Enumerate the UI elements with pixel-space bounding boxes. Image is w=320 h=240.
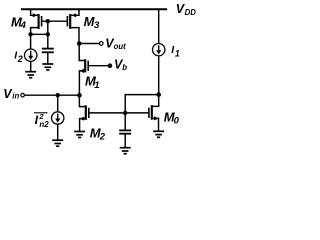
capacitor C1	[42, 34, 54, 64]
label I1	[171, 44, 180, 58]
ground M0	[153, 131, 164, 137]
transistor M4	[31, 9, 42, 34]
svg-text:n2: n2	[39, 120, 49, 129]
node Vout junction	[77, 41, 82, 46]
wire mirror node	[31, 33, 48, 35]
wire gate M2-M0	[89, 112, 149, 114]
label Vout	[105, 37, 126, 51]
svg-text:2: 2	[99, 132, 106, 143]
wire Vb	[88, 65, 110, 67]
node M4 drain	[28, 32, 32, 36]
node gate mirror	[123, 111, 127, 115]
svg-text:in: in	[12, 92, 19, 101]
wire M0 gate feedback	[125, 95, 159, 113]
terminal Vb bullet	[108, 63, 113, 68]
svg-text:0: 0	[174, 115, 180, 126]
label M4	[11, 15, 27, 32]
svg-text:b: b	[122, 63, 127, 72]
svg-text:I: I	[35, 113, 39, 127]
label M2	[90, 126, 106, 143]
svg-text:out: out	[114, 42, 127, 51]
svg-text:3: 3	[94, 20, 100, 31]
label Vb	[114, 58, 127, 72]
node gate tap	[46, 19, 50, 34]
svg-text:4: 4	[20, 20, 27, 31]
svg-text:DD: DD	[185, 8, 197, 17]
ground I2	[25, 72, 36, 78]
current source I1	[153, 9, 165, 94]
label I2	[14, 50, 23, 64]
noise current source In2	[52, 95, 64, 140]
label Vin	[3, 87, 19, 101]
label VDD	[176, 2, 196, 17]
VDD rail	[21, 8, 167, 10]
svg-text:1: 1	[94, 80, 99, 91]
wire gate M4-M3	[42, 20, 68, 22]
node cap tap	[46, 32, 50, 36]
svg-text:2: 2	[17, 54, 23, 64]
node M0 drain junction	[156, 92, 161, 97]
label M0	[164, 109, 180, 126]
wire Vout	[79, 43, 99, 45]
ground C1	[42, 64, 53, 70]
transistor M2	[79, 95, 88, 131]
svg-text:1: 1	[175, 49, 180, 59]
ground M2	[74, 132, 85, 138]
transistor M3	[67, 9, 79, 43]
label M1	[85, 73, 99, 91]
transistor M0	[149, 95, 159, 132]
ground In2	[52, 140, 63, 146]
node M1 source / M2 drain	[77, 93, 82, 98]
wire Vin	[25, 94, 80, 96]
terminal Vin	[21, 93, 25, 97]
terminal Vout	[99, 42, 103, 46]
ground C2	[120, 148, 131, 154]
node In2 tap	[56, 93, 60, 97]
label M3	[84, 14, 100, 31]
transistor M1	[79, 44, 88, 96]
current source I2	[25, 34, 37, 71]
label In2 noise	[34, 112, 49, 129]
capacitor C2	[119, 113, 131, 148]
